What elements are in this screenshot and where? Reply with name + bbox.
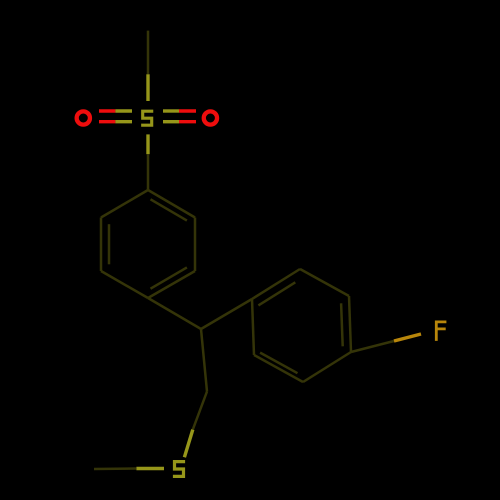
ring A edge B-LL	[101, 271, 148, 298]
ring A edge T-UR	[148, 190, 195, 218]
bond ring A to C3	[148, 298, 201, 329]
O atom label right	[204, 111, 217, 124]
ring A inner line for LL-UL	[108, 224, 111, 264]
benzene ring B (fluorophenyl)	[252, 269, 351, 382]
bond S1 to CH3 (sulfur half)	[136, 467, 164, 470]
bond S1 to CH3 (carbon half)	[94, 467, 136, 470]
bond C3 to C2	[201, 329, 207, 392]
S=O right double bond bottom line	[163, 120, 179, 123]
S-ring bond (sulfur half)	[146, 134, 149, 154]
S atom label sulfonyl	[143, 111, 152, 125]
ring B inner line for C-D	[341, 303, 343, 346]
ring A inner line for T-UR	[151, 199, 187, 220]
bond C2 to S1 (sulfur half)	[184, 430, 192, 458]
ring B edge Fv-A	[252, 299, 254, 355]
S=O left double bond bottom line	[99, 120, 115, 123]
ring B edge A-Btop	[252, 269, 300, 299]
bond F to ring B (carbon half)	[351, 341, 394, 352]
ring B edge E-Fv	[254, 355, 303, 382]
ring B edge C-D	[349, 296, 351, 352]
S=O left double bond top line	[99, 109, 115, 112]
ring B inner line for E-Fv	[260, 353, 297, 374]
ring A edge UL-T	[101, 190, 148, 218]
S=O right double bond top line	[163, 109, 179, 112]
bond C3 to ring B	[201, 299, 252, 329]
ring B inner line for A-Btop	[258, 282, 295, 305]
O atom label left	[77, 111, 90, 124]
bond F to ring B (fluorine half)	[394, 334, 421, 341]
ring A edge LR-B	[148, 271, 195, 298]
S atom label thioether	[175, 462, 184, 477]
methyl C-S bond (sulfur half)	[146, 74, 149, 101]
ring A edge UR-LR	[194, 218, 197, 272]
bond C2 to S1 (carbon half)	[193, 392, 207, 430]
ring A inner line for LR-B	[151, 267, 187, 288]
ring A edge LL-UL	[100, 218, 103, 272]
F atom label	[436, 322, 445, 340]
ring B edge D-E	[303, 352, 351, 382]
benzene ring A (methylsulfonylphenyl)	[101, 190, 195, 298]
methyl C-S bond (carbon half)	[147, 31, 150, 75]
S-ring bond (carbon half)	[147, 154, 150, 190]
ring B edge Btop-C	[300, 269, 349, 296]
